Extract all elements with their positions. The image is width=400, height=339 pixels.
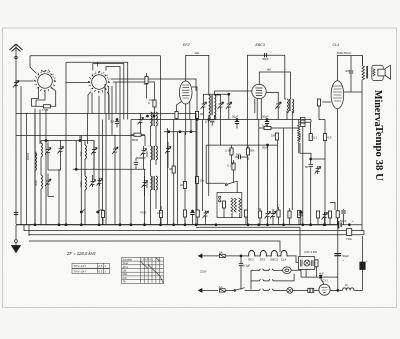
electrolytic on main bus end: [339, 221, 342, 229]
heater CL4: [280, 251, 289, 256]
bus left end connectors: [24, 225, 29, 236]
dial lamp oval: [283, 267, 292, 274]
trimmer bias: [315, 166, 321, 174]
wire vertical x81: [80, 136, 82, 226]
tube EBC3: [252, 84, 266, 98]
junction dots AVC bus: [168, 131, 170, 133]
switch contact S1a: [258, 269, 265, 271]
switch contact S3b: [268, 289, 275, 291]
ZF label: [66, 251, 97, 256]
coil L3b: [85, 175, 86, 225]
resistor 100A left of EF2: [153, 100, 156, 107]
table 1: [72, 263, 110, 273]
resistor x330: [328, 211, 331, 218]
capacitor 50pF B left: [235, 122, 239, 124]
heater chain wire: [199, 255, 247, 257]
capacitor 50 at bus: [299, 213, 303, 215]
osc trimmer MW: [141, 148, 147, 156]
bus y113.4: [16, 112, 196, 114]
main ground bus: [16, 224, 339, 226]
bus y234.8: [29, 234, 364, 236]
resistor to bus x246: [244, 210, 247, 217]
wire vertical x59: [58, 169, 60, 225]
wire vertical x87.5: [87, 113, 89, 144]
resistor to bus x299: [297, 211, 300, 218]
resistor R zigzag branch x298.75: [298, 120, 300, 125]
fuse in heater line: [219, 254, 225, 257]
V2 lower wires: [88, 92, 91, 114]
capacitor 500: [239, 155, 241, 159]
resistor 50k: [246, 148, 249, 155]
node rectifier output: [337, 289, 339, 291]
cap at 137.5,163.5: [134, 162, 138, 164]
lamp feed line: [301, 276, 319, 278]
trimmer diode load: [226, 102, 232, 110]
table 2: [122, 257, 164, 283]
V2 to EK2 wire: [111, 79, 197, 91]
heater EF2: [259, 251, 268, 256]
capacitor at bus x343.5: [341, 211, 345, 213]
ground: [12, 225, 21, 253]
wire vertical x102.5: [102, 120, 104, 226]
capacitor 50: [309, 165, 313, 167]
trimmer at x151.5: [138, 117, 144, 125]
wire stub 4700: [144, 210, 146, 225]
Minerva title: [372, 90, 385, 181]
wire vertical x277.5: [277, 140, 279, 210]
node AVC left: [75, 168, 77, 170]
IF transformer 2: [275, 99, 293, 210]
node bus x324: [323, 224, 325, 226]
output transformer: [362, 56, 368, 231]
resistor 1M: [275, 133, 278, 140]
wire stub x145: [144, 136, 146, 147]
wire antenna to tube1: [16, 80, 34, 82]
resistor 0,5: [323, 134, 326, 141]
capacitor 1nF at bus: [192, 210, 194, 212]
resistor under V1: [43, 105, 50, 108]
AVC bus y131.8: [164, 131, 196, 133]
wire vertical x258.75: [258, 120, 260, 211]
node heater tap: [240, 255, 242, 257]
tube V2 (octal base view): [88, 71, 110, 93]
resistor block left margin col: [301, 118, 306, 127]
coil L2b: [41, 175, 42, 225]
bus y145: [206, 144, 277, 146]
osc trimmer KW: [142, 180, 148, 188]
wire vertical x76 and AVC return: [75, 141, 77, 170]
node rectifier input: [320, 276, 322, 278]
wire vertical x40: [39, 110, 41, 145]
wire bias link: [311, 158, 325, 160]
switch contact S1b: [268, 269, 275, 271]
junction dots on AVC bus: [45, 140, 47, 142]
wire vertical x196: [195, 113, 197, 225]
CL4 grid resistor: [317, 99, 320, 106]
resistor lamp shunt: [315, 260, 318, 267]
band switch: [226, 181, 237, 184]
screen resistor boxes below EF2: [175, 112, 178, 119]
trimmer C MW: [58, 146, 64, 154]
wire vertical x46: [45, 109, 47, 225]
antenna: [10, 44, 23, 224]
resistor 4,5k: [316, 211, 319, 218]
wire vertical x202.5: [202, 120, 204, 212]
EBC3 diode to trimmer: [266, 92, 279, 101]
resistor 0,1M: [230, 148, 233, 155]
wire vertical x267.5: [267, 145, 269, 211]
row 2: [251, 280, 258, 282]
rectifier tube CY1: [319, 284, 330, 295]
switch contacts on verticals: [84, 169, 86, 175]
pot 25k: [270, 211, 276, 219]
switch contact S3a: [258, 289, 265, 291]
wire vertical x35: [34, 113, 36, 225]
wire vertical x26.5: [26, 113, 28, 225]
pot 50k: [265, 211, 271, 219]
heater EBC3: [270, 251, 279, 256]
wire branch to R 0,1: [299, 122, 311, 133]
trimmer C LW: [45, 147, 51, 155]
resistor 0,3M: [264, 126, 271, 129]
wire top bus drop to V1: [30, 56, 37, 74]
heater EK2: [247, 251, 256, 256]
node AVC: [267, 144, 269, 146]
wire vertical x144.5: [144, 169, 146, 210]
choke: [343, 288, 354, 291]
padder trimmer: [112, 147, 118, 155]
trimmer C KW: [45, 179, 51, 187]
pot tone: [322, 212, 328, 220]
resistor at bus x103: [101, 211, 104, 218]
resistor to bus x289.5: [288, 211, 291, 218]
wires trimmer group: [48, 141, 61, 197]
wire speaker return corner: [363, 231, 365, 235]
capacitor 3M: [115, 121, 119, 123]
wire vertical x283.6: [283, 128, 285, 225]
TRG resistor between 230/236 lines: [347, 229, 352, 236]
junction dots main ground bus: [34, 224, 36, 226]
trimmer at bus x205.5: [203, 211, 209, 219]
band coil L1: [35, 109, 36, 226]
pilot lamp box: [298, 257, 314, 270]
wire vertical x131: [130, 120, 132, 226]
switch bank rows: [251, 269, 258, 271]
mains row: [199, 289, 218, 291]
switch contact S2a: [258, 279, 265, 281]
capacitor 0,1: [232, 163, 235, 170]
wire vertical x106: [105, 113, 107, 225]
wire antenna branch vertical: [20, 86, 22, 225]
wire vertical x94: [93, 141, 95, 180]
bus y227.2: [196, 226, 300, 228]
EF2 bottom pins: [177, 102, 182, 112]
resistor at bus x185b: [183, 210, 186, 217]
IF transformer 1: [201, 91, 253, 120]
resistor 20: [183, 182, 186, 189]
antenna trimmer C1: [13, 80, 19, 88]
trimmer C4: [91, 147, 97, 155]
resistor 0,1: [309, 134, 312, 141]
vertical x300: [299, 227, 301, 256]
capacitor 0,1uF: [239, 264, 243, 266]
speaker: [372, 65, 391, 80]
node bias junction: [310, 158, 312, 160]
resistor to bus x260: [258, 211, 261, 218]
bus y241: [29, 241, 280, 252]
tube CL4: [331, 81, 344, 109]
wire stub x191: [190, 120, 192, 132]
tube V1 (octal base view): [34, 70, 56, 92]
EBC3 grid line: [259, 72, 290, 99]
AVC bus y140.5: [41, 140, 94, 142]
rectifier section: [308, 288, 314, 292]
capacitor antenna to ground: [14, 213, 18, 215]
CL4 plate wiring: [337, 55, 363, 57]
node cap 3M: [116, 119, 118, 121]
V1 riser wires: [39, 105, 41, 107]
trimmer C5: [90, 179, 96, 187]
capacitor 0,1 IFT1: [210, 120, 214, 122]
wire top bus: [30, 55, 161, 57]
resistor to bus x278.5: [277, 210, 280, 217]
wire vertical x302.8: [302, 127, 304, 226]
bus y119.5: [131, 120, 311, 123]
trimmer C6: [97, 178, 103, 186]
node diode load: [228, 93, 230, 95]
tube EF2 (side view oval): [179, 55, 208, 111]
junction dots bus y119.5: [208, 119, 210, 121]
resistor 5000 h-box: [134, 133, 141, 136]
coil L3a: [85, 141, 86, 176]
bus y135.5: [16, 135, 145, 137]
wire vertical x173.7: [173, 120, 175, 167]
wire vertical x99: [98, 136, 100, 226]
volume control box P: [217, 193, 242, 219]
wire stub x220.5: [220, 120, 222, 146]
wire vertical x208.75: [208, 120, 210, 197]
switch contact S2b: [268, 279, 275, 281]
nested wires right of V2: [93, 64, 124, 120]
osc coil stack: [151, 112, 158, 225]
wire vertical x167.5: [167, 128, 169, 225]
small component labels scattered: [26, 51, 368, 289]
resistor cathode CL4: [336, 211, 339, 218]
tube V1 lower loop wires: [32, 88, 41, 107]
electrolytic on 362 line: [360, 262, 365, 270]
wire V2 grid left loop: [66, 62, 90, 225]
EBC3 bottom pins: [254, 99, 256, 113]
wire vertical x177.5: [177, 132, 179, 226]
resistor at bus x197.7: [196, 210, 199, 217]
wire lamp feed to smoothing: [322, 276, 337, 278]
wire zigzag bottom link: [300, 143, 311, 159]
wire stub x80: [79, 136, 81, 142]
EBC3 plate circuit: [247, 54, 285, 56]
coil L2a: [41, 141, 42, 176]
capacitor 50pF B right: [265, 122, 269, 124]
osc trimmer LW: [165, 146, 171, 154]
bus y230.5: [24, 230, 364, 232]
wire vertical x185: [184, 132, 186, 182]
resistor R (302) between V2 and EK2: [145, 77, 148, 84]
electrolytic at 337 top: [334, 254, 341, 256]
resistor 100 at bus: [159, 211, 162, 218]
